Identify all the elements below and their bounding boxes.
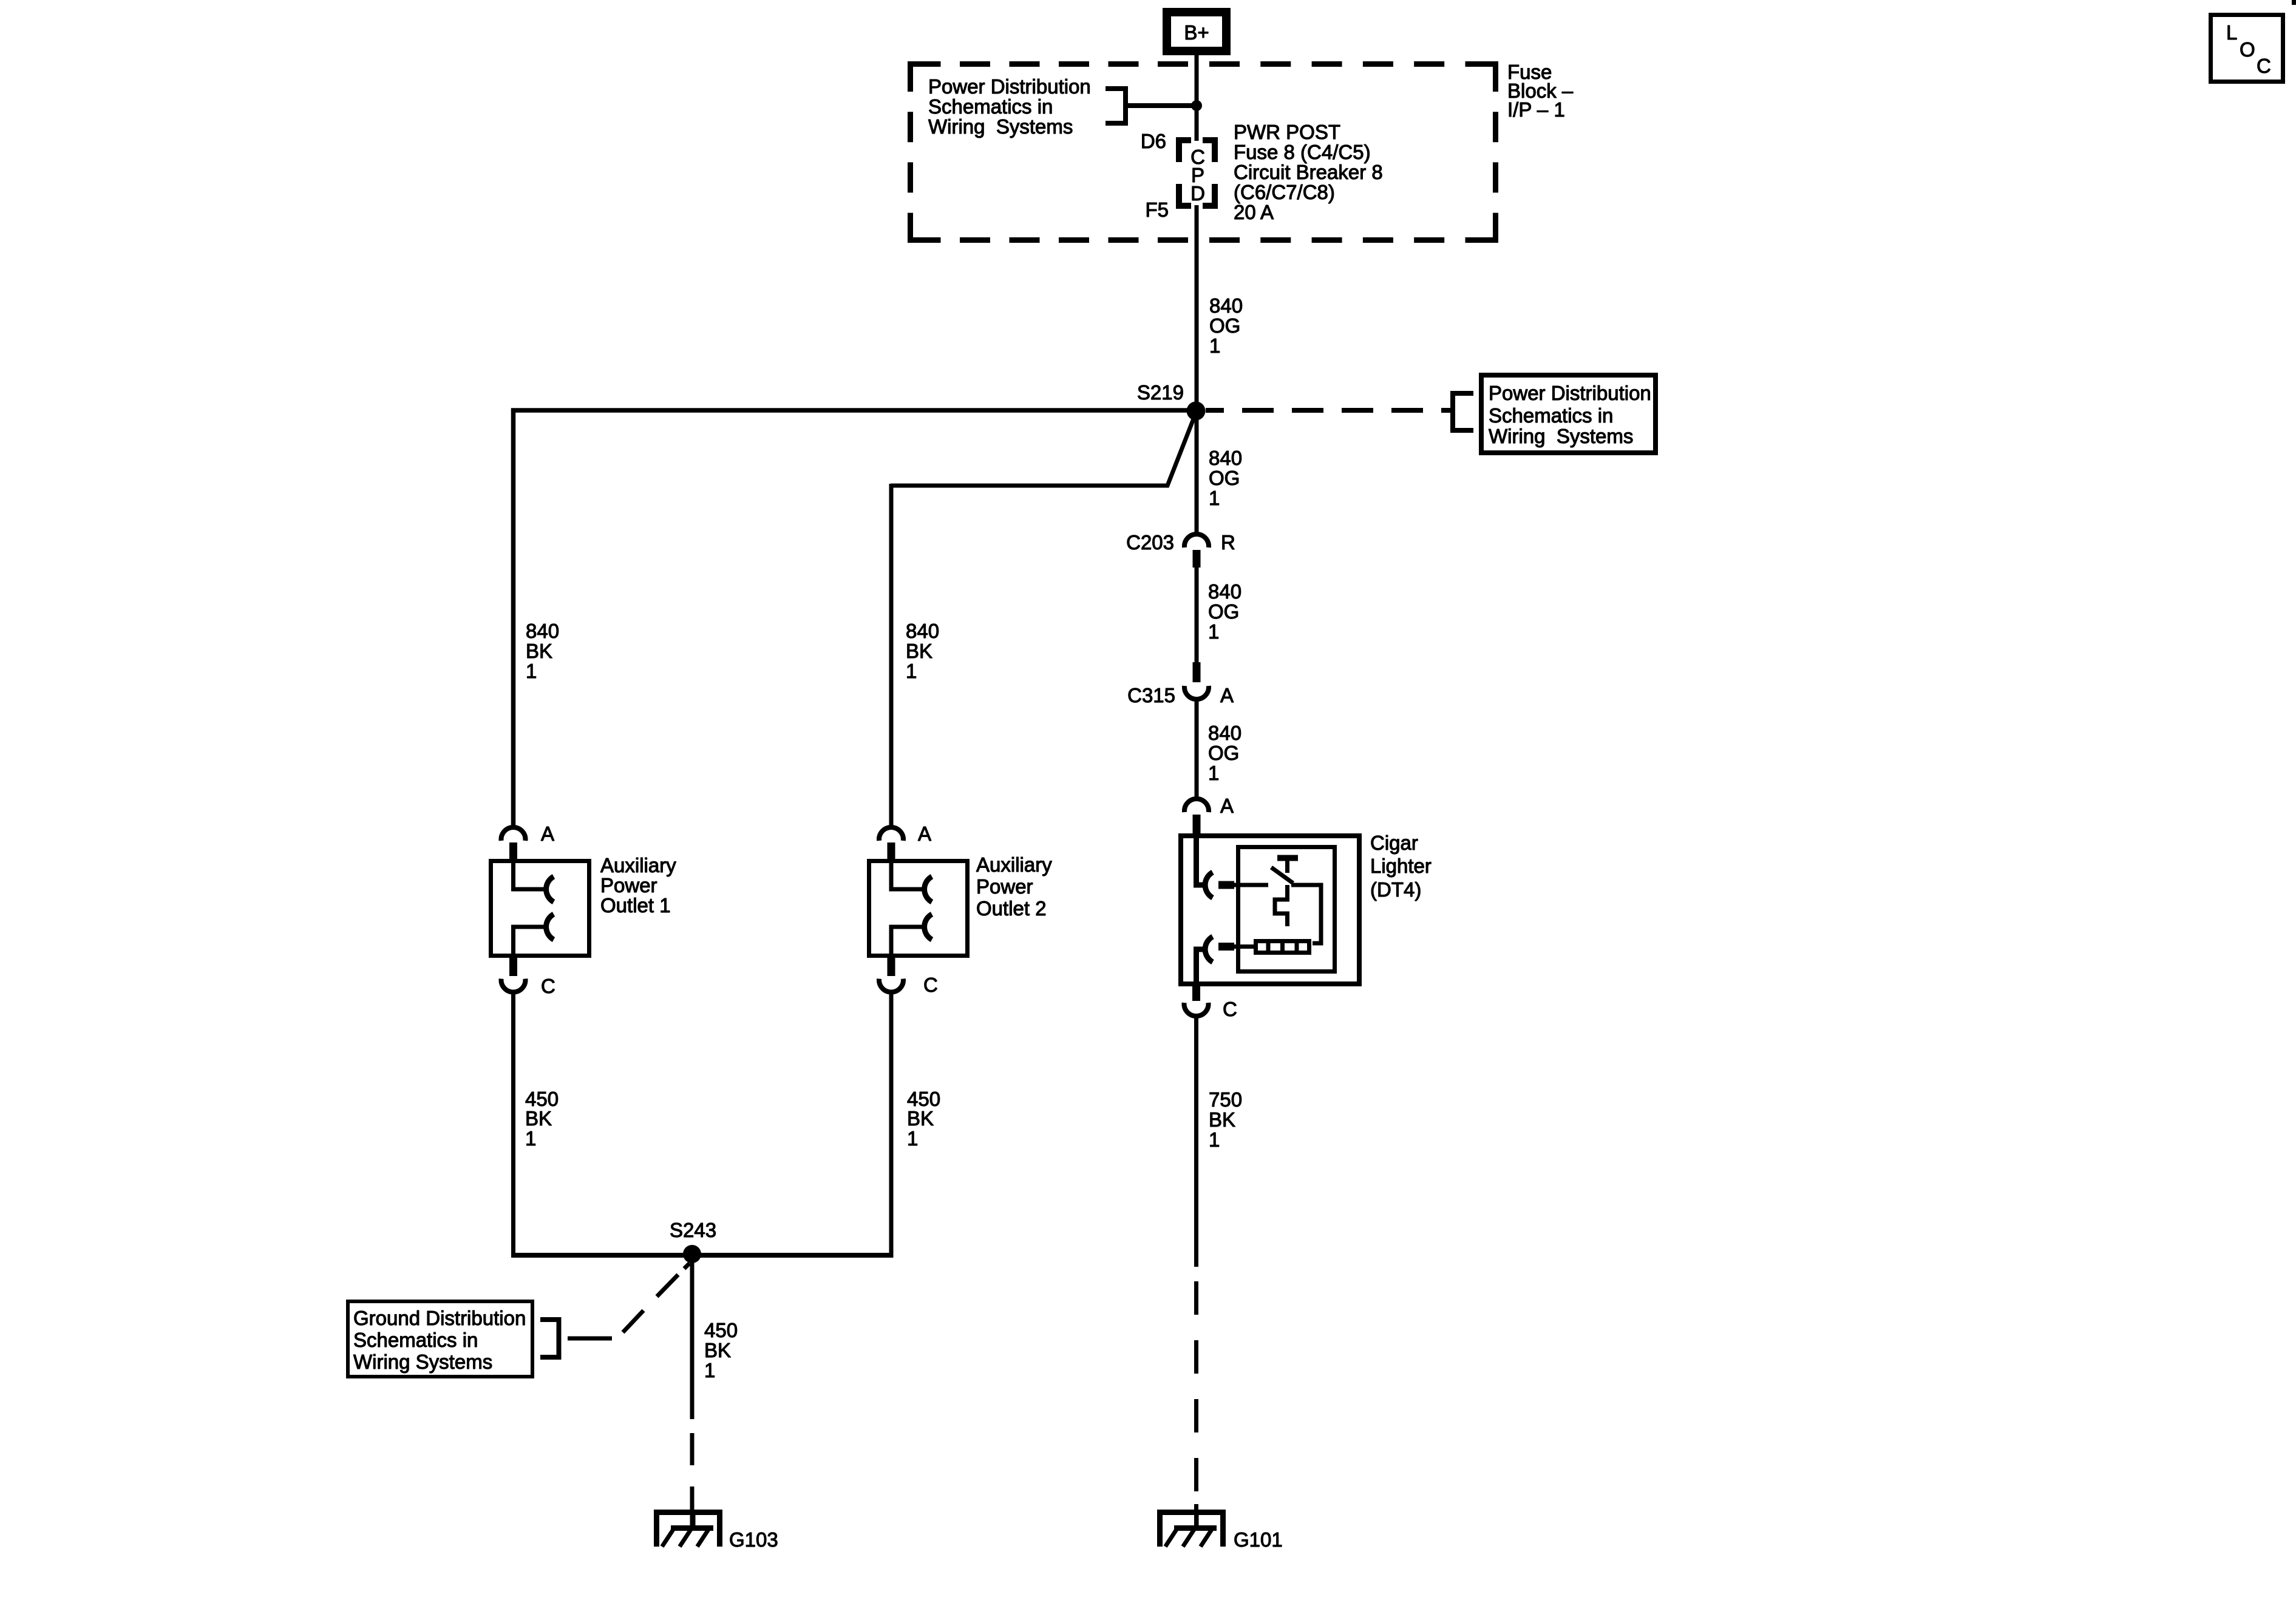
- auxiliary power outlet 1 pin C: [501, 958, 555, 997]
- svg-text:I/P – 1: I/P – 1: [1507, 98, 1565, 121]
- page edge mark: [2292, 0, 2296, 5]
- svg-text:20 A: 20 A: [1234, 201, 1274, 223]
- label: 750 BK 1: [1209, 1088, 1242, 1151]
- svg-text:840: 840: [1208, 580, 1241, 603]
- wire fuse to S219: [1195, 205, 1199, 412]
- svg-text:F5: F5: [1145, 198, 1169, 221]
- svg-text:Power: Power: [600, 874, 657, 897]
- svg-text:Outlet 1: Outlet 1: [600, 894, 671, 917]
- svg-text:L: L: [2226, 21, 2237, 44]
- label: PWR POST fuse details: [1234, 121, 1383, 223]
- svg-text:Schematics in: Schematics in: [928, 95, 1053, 118]
- battery feed B+ box: [1167, 12, 1226, 51]
- bracket to Power Distribution box (right): [1453, 391, 1473, 433]
- splice S219: [1187, 402, 1206, 421]
- fuse / circuit breaker CPD symbol: [1179, 140, 1215, 206]
- svg-text:Outlet 2: Outlet 2: [976, 897, 1047, 920]
- wire: outlet 2 leg down: [889, 484, 894, 827]
- wire: dashed drop to G101: [1194, 1281, 1198, 1529]
- label: Cigar Lighter (DT4): [1370, 832, 1432, 901]
- svg-text:C: C: [923, 974, 938, 996]
- svg-text:(DT4): (DT4): [1370, 878, 1421, 901]
- label: 450 BK 1 (outlet 1 leg): [525, 1088, 559, 1150]
- wire pin C inside lighter: [1197, 949, 1203, 983]
- bracket to Power Distribution note (top): [1106, 86, 1126, 126]
- label: Auxiliary Power Outlet 1: [600, 854, 676, 917]
- wire tap to bracket: [1127, 103, 1197, 108]
- note box: Power Distribution Schematics in Wiring Systems: [1481, 375, 1656, 453]
- svg-text:OG: OG: [1209, 314, 1240, 337]
- svg-text:1: 1: [1209, 1128, 1220, 1151]
- svg-text:B+: B+: [1184, 21, 1209, 44]
- label: 450 BK 1 (outlet 2 leg): [907, 1088, 940, 1150]
- svg-text:PWR POST: PWR POST: [1234, 121, 1340, 143]
- splice S243: [683, 1245, 701, 1263]
- svg-text:C: C: [2257, 55, 2271, 77]
- terminal arc bottom: [1205, 937, 1212, 962]
- svg-text:750: 750: [1209, 1088, 1242, 1111]
- auxiliary power outlet 1: [491, 861, 589, 956]
- svg-text:Fuse 8 (C4/C5): Fuse 8 (C4/C5): [1234, 141, 1371, 163]
- svg-text:BK: BK: [526, 640, 552, 662]
- svg-text:OG: OG: [1208, 600, 1239, 623]
- wire C315 to cigar lighter: [1195, 699, 1199, 801]
- wire outlet 2 to S243: [889, 991, 894, 1255]
- svg-text:BK: BK: [906, 640, 932, 662]
- wire B+ to fuse: [1195, 55, 1199, 141]
- cigar lighter DT4: [1181, 836, 1359, 984]
- svg-text:G103: G103: [729, 1528, 778, 1551]
- svg-text:Schematics in: Schematics in: [1489, 404, 1613, 427]
- auxiliary power outlet 2: [869, 861, 968, 956]
- label: 840 BK 1 (outlet 1 leg): [526, 620, 559, 682]
- svg-text:C315: C315: [1127, 684, 1175, 707]
- terminal bar top: [1218, 881, 1234, 889]
- LOC legend box top right: [2211, 15, 2283, 82]
- svg-text:C: C: [541, 975, 555, 997]
- label: 840 OG 1 (fuse to S219): [1209, 294, 1243, 357]
- label: Fuse Block - I/P - 1: [1507, 61, 1574, 121]
- svg-text:840: 840: [526, 620, 559, 642]
- wire cigar lighter to G101: [1194, 1015, 1198, 1267]
- auxiliary power outlet 1 pin A: [501, 822, 555, 861]
- wire: dashed S243 to ground note bracket: [568, 1263, 690, 1338]
- svg-text:O: O: [2240, 38, 2255, 61]
- fuse block I/P dashed box: [911, 61, 1496, 243]
- svg-text:Lighter: Lighter: [1370, 855, 1432, 877]
- svg-text:Wiring Systems: Wiring Systems: [1489, 425, 1633, 447]
- ground G101: [1157, 1510, 1226, 1547]
- svg-text:BK: BK: [907, 1107, 934, 1130]
- svg-text:Auxiliary: Auxiliary: [600, 854, 676, 876]
- svg-text:1: 1: [704, 1359, 715, 1381]
- cigar lighter pin C: [1184, 985, 1237, 1020]
- svg-text:Power Distribution: Power Distribution: [928, 75, 1091, 98]
- svg-text:S219: S219: [1137, 381, 1184, 404]
- wire: ground bus: [511, 1253, 894, 1258]
- auxiliary power outlet 2 pin A: [879, 822, 931, 861]
- svg-text:Schematics in: Schematics in: [353, 1329, 478, 1351]
- svg-text:Wiring Systems: Wiring Systems: [928, 115, 1073, 138]
- svg-text:A: A: [1220, 684, 1234, 707]
- svg-text:BK: BK: [525, 1107, 552, 1130]
- wire: dashed drop to G103: [690, 1433, 695, 1529]
- node: tap to power distribution: [1191, 100, 1202, 111]
- wire S219 to C203: [1195, 416, 1199, 536]
- svg-text:840: 840: [1209, 294, 1243, 317]
- label: 450 BK 1 (S243 to G103): [704, 1319, 738, 1381]
- wire S243 down: [690, 1255, 695, 1419]
- connector C203 pin R: [1126, 531, 1235, 568]
- auxiliary power outlet 2 pin C: [879, 958, 938, 996]
- wire: diagonal branch to outlet 2: [891, 419, 1194, 486]
- wire C203 to C315: [1195, 568, 1199, 662]
- svg-text:(C6/C7/C8): (C6/C7/C8): [1234, 181, 1335, 203]
- ground G103: [654, 1510, 722, 1547]
- svg-text:840: 840: [906, 620, 939, 642]
- note box: Ground Distribution Schematics in Wiring Systems: [348, 1301, 532, 1377]
- connector C315 pin A: [1127, 662, 1234, 707]
- label: 840 OG 1 (C315 to cigar lighter): [1208, 722, 1241, 784]
- svg-text:1: 1: [526, 660, 537, 682]
- svg-text:Circuit Breaker 8: Circuit Breaker 8: [1234, 161, 1383, 183]
- svg-text:R: R: [1221, 531, 1235, 554]
- svg-text:BK: BK: [704, 1339, 731, 1361]
- terminal bar bottom: [1218, 943, 1234, 951]
- svg-text:1: 1: [1209, 487, 1220, 509]
- right conductor: [1291, 885, 1321, 943]
- heater element: [1256, 941, 1309, 953]
- label: Auxiliary Power Outlet 2: [976, 853, 1052, 920]
- wire: dashed S219 to power distribution note: [1206, 408, 1450, 413]
- svg-text:C203: C203: [1126, 531, 1174, 554]
- svg-text:Power: Power: [976, 875, 1033, 898]
- svg-text:OG: OG: [1208, 742, 1239, 764]
- svg-text:A: A: [918, 822, 931, 845]
- label: 840 OG 1 (S219 to C203): [1209, 447, 1242, 509]
- svg-text:1: 1: [1208, 762, 1219, 784]
- switch blade: [1271, 867, 1293, 883]
- svg-text:Wiring Systems: Wiring Systems: [353, 1351, 492, 1373]
- svg-text:OG: OG: [1209, 467, 1240, 489]
- svg-text:1: 1: [1209, 334, 1220, 357]
- bimetal element: [1275, 885, 1288, 926]
- svg-text:840: 840: [1209, 447, 1242, 469]
- svg-text:Cigar: Cigar: [1370, 832, 1418, 854]
- svg-text:1: 1: [906, 660, 917, 682]
- note: Power Distribution Schematics (top left): [928, 75, 1091, 138]
- terminal arc top: [1205, 872, 1212, 898]
- svg-text:C: C: [1223, 998, 1237, 1020]
- svg-text:1: 1: [907, 1127, 918, 1150]
- svg-text:S243: S243: [670, 1219, 716, 1241]
- svg-text:G101: G101: [1234, 1528, 1283, 1551]
- switch contact T: [1277, 855, 1298, 861]
- label: 840 OG 1 (C203 to C315): [1208, 580, 1241, 643]
- wire: S219 bus left and down to outlet 1: [514, 410, 1197, 827]
- svg-text:840: 840: [1208, 722, 1241, 744]
- svg-text:A: A: [1220, 795, 1234, 817]
- svg-text:A: A: [541, 822, 554, 845]
- svg-text:1: 1: [525, 1127, 536, 1150]
- svg-text:BK: BK: [1209, 1108, 1235, 1131]
- cigar lighter pin A: [1184, 795, 1234, 835]
- wire outlet 1 to S243: [511, 991, 515, 1255]
- svg-text:D: D: [1190, 182, 1205, 205]
- svg-text:Ground Distribution: Ground Distribution: [353, 1307, 526, 1329]
- wire pin A into lighter: [1197, 838, 1203, 885]
- svg-text:450: 450: [704, 1319, 738, 1341]
- svg-text:1: 1: [1208, 620, 1219, 643]
- label: 840 BK 1 (outlet 2 leg): [906, 620, 939, 682]
- svg-text:Power Distribution: Power Distribution: [1489, 382, 1651, 404]
- bracket to Ground Distribution note: [540, 1317, 559, 1360]
- svg-text:Auxiliary: Auxiliary: [976, 853, 1052, 876]
- svg-text:D6: D6: [1141, 130, 1166, 152]
